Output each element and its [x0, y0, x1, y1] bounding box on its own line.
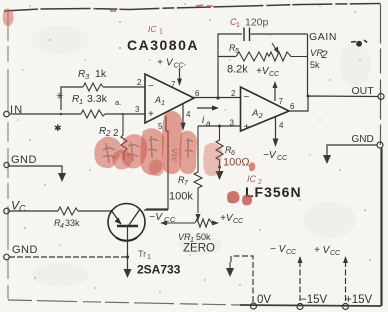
terminal 0V	[251, 303, 257, 309]
svg-text:OUT: OUT	[352, 85, 375, 97]
wire feedback right leg	[307, 34, 310, 96]
resistor R3 1k	[83, 83, 103, 91]
op-amp U2 LF356N	[241, 87, 290, 131]
svg-text:+ V: + V	[314, 245, 331, 256]
svg-text:2: 2	[137, 78, 142, 87]
wire GND lower to base	[9, 256, 127, 258]
resistor R2	[121, 113, 127, 160]
ground arrow left	[58, 173, 66, 182]
base lead down	[127, 226, 129, 270]
resistor R1 3.3k	[81, 110, 105, 118]
wire A2 pin3 line	[198, 125, 241, 127]
paper smudges	[30, 26, 371, 287]
ground arrow right	[323, 155, 331, 164]
svg-text:i: i	[202, 115, 205, 126]
svg-text:6: 6	[195, 89, 200, 98]
power -Vcc pin4 A1	[182, 104, 184, 123]
svg-text:100Ω: 100Ω	[223, 157, 250, 169]
wire bottom rail 0V	[8, 300, 240, 305]
svg-text:CC: CC	[330, 250, 341, 257]
svg-text:1k: 1k	[95, 68, 107, 80]
red smudge top-left corner	[3, 9, 14, 27]
svg-text:+: +	[148, 109, 154, 120]
svg-text:50k: 50k	[196, 232, 211, 242]
terminal -15V	[297, 304, 303, 310]
svg-text:3.3k: 3.3k	[87, 93, 108, 105]
svg-text:−: −	[148, 81, 154, 92]
svg-text:+V: +V	[220, 213, 234, 224]
svg-text:CC: CC	[286, 249, 297, 256]
resistor R6 100 ohm	[218, 125, 221, 128]
terminal GND left lower	[4, 254, 10, 260]
ground for R6	[219, 168, 221, 172]
svg-text:−15V: −15V	[300, 294, 328, 306]
svg-text:0V: 0V	[257, 294, 271, 306]
pin5 A1 wire to transistor collector	[146, 116, 168, 209]
svg-text:GAIN: GAIN	[309, 31, 337, 43]
svg-text:7: 7	[184, 180, 189, 187]
op-amp U1 CA3080A	[145, 74, 194, 123]
svg-text:2: 2	[321, 49, 328, 61]
terminal IN	[4, 111, 10, 117]
svg-text:4: 4	[279, 121, 284, 130]
svg-text:CC: CC	[233, 218, 244, 225]
transistor Q1 2SA733	[108, 204, 145, 241]
svg-text:Tr: Tr	[138, 249, 146, 259]
resistor R4 33k	[58, 207, 78, 215]
svg-text:2SA733: 2SA733	[137, 263, 181, 277]
wire +15V	[345, 261, 347, 303]
svg-text:+15V: +15V	[345, 294, 373, 306]
current arrow ia	[197, 107, 215, 109]
svg-text:1: 1	[236, 22, 240, 29]
terminal GND right	[377, 142, 383, 148]
svg-text:33k: 33k	[65, 218, 80, 228]
svg-text:1: 1	[79, 97, 83, 106]
node junction at R3 branch	[60, 113, 62, 115]
svg-text:2: 2	[258, 111, 264, 120]
svg-text:− V: − V	[270, 244, 287, 255]
svg-text:ZERO: ZERO	[183, 243, 215, 255]
svg-text:100k: 100k	[169, 191, 193, 203]
dark squiggles inside watermark	[103, 136, 193, 163]
emitter with arrow	[111, 210, 121, 224]
wire A2 output to OUT	[289, 96, 378, 111]
resistor R5 8.2k	[236, 52, 269, 61]
svg-text:A: A	[154, 95, 161, 105]
power -Vcc pin4 A2	[275, 117, 277, 140]
red watermark	[94, 111, 222, 176]
svg-text:120p: 120p	[245, 17, 269, 29]
ground arrow 0V	[226, 268, 234, 277]
collector	[129, 209, 140, 225]
svg-text:1: 1	[147, 254, 151, 261]
svg-text:CC: CC	[269, 71, 280, 78]
terminal GND left upper	[4, 162, 9, 167]
wire feedback left leg	[218, 34, 242, 98]
wire 0V hook	[231, 256, 253, 303]
svg-text:−: −	[244, 92, 250, 103]
svg-text:1: 1	[161, 100, 165, 107]
terminal +15V	[343, 304, 349, 310]
svg-text:4: 4	[186, 110, 191, 119]
svg-text:a: a	[206, 119, 211, 128]
wire feedback lower branch	[218, 56, 236, 58]
potentiometer VR2 body	[269, 52, 308, 61]
wiper arrow VR2	[272, 43, 277, 51]
potentiometer VR1 50k	[195, 219, 216, 227]
stray mark near GAIN	[351, 40, 367, 46]
wire branch up to R3	[61, 87, 83, 110]
svg-text:GND: GND	[12, 244, 38, 256]
wire R3 to A1 pin2	[103, 86, 145, 88]
svg-text:−V: −V	[263, 150, 277, 161]
svg-text:CA3080A: CA3080A	[127, 37, 199, 53]
svg-text:IC: IC	[247, 174, 257, 184]
red speck left of IC2	[249, 162, 255, 171]
svg-text:.: .	[184, 58, 187, 69]
wire GND right	[327, 145, 377, 155]
terminal OUT	[378, 94, 384, 100]
wire R1 to A1 pin3	[105, 113, 145, 115]
svg-text:5: 5	[235, 48, 239, 55]
svg-text:−V: −V	[149, 212, 163, 223]
svg-text:GND: GND	[11, 154, 37, 166]
collector wire to pin5 line	[144, 209, 168, 211]
svg-text:2: 2	[231, 89, 236, 98]
red marks top border	[110, 5, 213, 11]
svg-text:LF356N: LF356N	[245, 184, 302, 200]
svg-text:7: 7	[279, 97, 284, 106]
svg-text:GND: GND	[352, 134, 374, 145]
svg-text:CC: CC	[277, 155, 288, 162]
terminal Vc	[4, 208, 10, 214]
svg-text:A: A	[251, 108, 258, 119]
svg-text:4: 4	[60, 223, 64, 230]
svg-text:1: 1	[159, 29, 163, 36]
svg-text:6: 6	[290, 102, 295, 111]
wiper arrow of VR1	[196, 214, 201, 221]
svg-text:3: 3	[135, 105, 140, 114]
wire R4 to transistor	[78, 210, 112, 212]
capacitor C1 120p	[244, 28, 250, 42]
resistor R7 100k	[194, 126, 202, 213]
wire GND left upper	[9, 166, 62, 174]
svg-text:C: C	[19, 204, 26, 214]
red marks bottom center	[227, 191, 252, 206]
svg-text:+: +	[157, 58, 163, 69]
svg-text:CC: CC	[164, 215, 176, 224]
svg-text:5: 5	[158, 122, 163, 131]
svg-text:5k: 5k	[310, 60, 320, 70]
node feedback tap	[216, 96, 219, 99]
svg-text:3: 3	[85, 72, 90, 81]
wire IN to R1	[9, 113, 81, 115]
svg-text:+: +	[244, 122, 250, 133]
svg-text:IC: IC	[148, 24, 157, 34]
wire A1 output to A2 pin2	[194, 97, 241, 99]
svg-text:7: 7	[171, 80, 176, 89]
svg-text:✳: ✳	[56, 91, 64, 101]
svg-text:a.: a.	[115, 98, 121, 107]
wire Vc to R4	[9, 210, 58, 212]
svg-text:✱: ✱	[54, 123, 62, 133]
svg-text:+V: +V	[256, 66, 270, 77]
svg-text:8.2k: 8.2k	[227, 64, 248, 76]
svg-text:2: 2	[113, 128, 119, 139]
wire -15V	[299, 261, 301, 303]
